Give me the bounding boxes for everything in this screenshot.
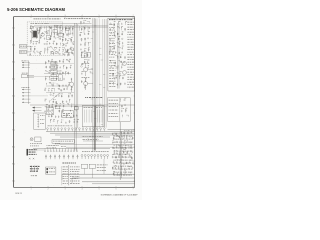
enclosure: protection circuit <box>108 98 131 122</box>
phono input pins <box>22 62 30 68</box>
wire: inner box bus <box>117 23 119 89</box>
relay RL1 <box>35 137 41 142</box>
svg-text:6: 6 <box>116 15 117 17</box>
electrolytic C10 / C11 <box>51 51 53 53</box>
wire: output run 2 <box>50 132 135 134</box>
antenna terminal J1 <box>19 45 26 48</box>
power switch S9 labels <box>29 149 37 154</box>
wire: center bus group C <box>98 19 100 129</box>
sheet border frame <box>14 17 135 188</box>
svg-text:6: 6 <box>116 189 117 191</box>
wire: output run 4 <box>60 136 110 138</box>
speaker terminal strip TB1 <box>47 128 106 132</box>
svg-text:5: 5 <box>99 15 100 17</box>
fuse holder F1 <box>52 140 74 144</box>
AC cord labels <box>30 166 40 172</box>
IF transformer T1 <box>32 30 37 38</box>
output transistor Q7 <box>123 62 127 66</box>
section header: power supply <box>85 96 103 99</box>
svg-text:SCHEMATIC DIAGRAM OF S-206 AMP: SCHEMATIC DIAGRAM OF S-206 AMP <box>101 194 139 197</box>
wire: top bus B+ <box>34 25 108 27</box>
bus taps <box>91 26 105 125</box>
rectifier block D2-D5 <box>46 108 53 115</box>
wire: ground return <box>92 183 135 185</box>
coupling transformer T5 <box>81 52 86 58</box>
wire: rail run 6 <box>66 146 135 148</box>
svg-text:1: 1 <box>12 28 13 30</box>
power transformer T6 <box>82 106 95 127</box>
aux input socket J3 <box>21 75 27 78</box>
wire: output run 3 <box>55 134 135 136</box>
wire: rail run 5 <box>60 144 135 146</box>
ground terminal J2 <box>19 51 26 54</box>
audio driver circuitry <box>80 21 90 58</box>
de-emphasis network <box>63 44 73 56</box>
parts table rule <box>68 165 70 185</box>
output transistor Q8 <box>123 71 127 75</box>
tape input pins <box>22 89 31 103</box>
electrolytic bank C30-C38 <box>81 154 109 159</box>
wire: return run <box>108 128 135 130</box>
power amp circuitry <box>109 22 126 86</box>
IF transformer T2 <box>46 36 51 39</box>
capacitor C2 <box>39 27 41 33</box>
tuner block circuitry <box>30 27 44 56</box>
wire: bus drops <box>47 26 89 37</box>
IF transformer T3 <box>53 30 57 33</box>
wire: output run 1 <box>46 130 135 132</box>
grid reference ticks <box>14 17 135 188</box>
regulator IC1 <box>62 111 74 118</box>
parts table rows <box>63 167 80 184</box>
svg-text:S26 21: S26 21 <box>15 193 22 195</box>
wire: relay drops <box>61 174 63 180</box>
wire: speaker line R <box>72 177 135 179</box>
power supply board circuitry <box>112 131 134 175</box>
wire: antenna leads <box>27 45 31 47</box>
tone control network <box>51 74 56 76</box>
transformer windings <box>85 110 103 123</box>
svg-text:5-206 SCHEMATIC DIAGRAM: 5-206 SCHEMATIC DIAGRAM <box>7 7 65 12</box>
muting relay RL2 <box>81 164 87 168</box>
rectifier labels under transformer <box>83 136 103 139</box>
IF strip circuitry <box>44 26 75 56</box>
transistor Q1 <box>41 33 44 36</box>
detector diode D1 <box>65 28 69 30</box>
preamp circuitry <box>44 60 72 104</box>
protection circuit components <box>120 99 128 118</box>
wire: center bus group A <box>74 23 76 151</box>
IF transformer T4 <box>59 33 64 36</box>
pushbutton row S2-S8 <box>44 148 77 151</box>
svg-text:1: 1 <box>31 189 32 191</box>
svg-text:7: 7 <box>12 130 13 132</box>
power amp upper label column <box>109 24 115 57</box>
svg-text:2: 2 <box>48 189 49 191</box>
output transformer T7 <box>95 106 104 127</box>
svg-text:3: 3 <box>12 62 13 64</box>
driver bias components <box>81 61 93 89</box>
svg-text:8: 8 <box>12 147 13 149</box>
net labels along top bus <box>34 17 91 20</box>
wire: ground line <box>82 181 135 183</box>
diode pair D6 D7 <box>83 140 103 142</box>
power supply board labels <box>114 133 133 176</box>
svg-text:2: 2 <box>12 45 13 47</box>
coil L1 <box>30 26 33 28</box>
pre-driver transistor Q5 <box>84 82 88 86</box>
svg-text:5: 5 <box>99 189 100 191</box>
svg-text:6: 6 <box>12 113 13 115</box>
connector strip CN1 <box>34 113 46 129</box>
svg-text:9: 9 <box>12 164 13 166</box>
wire: input feed runs <box>29 63 74 65</box>
wire: center bus group B <box>92 18 94 152</box>
svg-text:4: 4 <box>82 189 83 191</box>
svg-text:1: 1 <box>31 15 32 17</box>
svg-text:4: 4 <box>82 15 83 17</box>
power amp label column left <box>109 60 115 87</box>
wire: speaker feed arrows <box>32 107 41 112</box>
svg-text:5: 5 <box>12 96 13 98</box>
wire: top feed <box>44 22 92 24</box>
legend box <box>46 167 56 174</box>
svg-text:4: 4 <box>12 79 13 81</box>
svg-text:2: 2 <box>48 15 49 17</box>
wire: chassis rail <box>33 147 110 149</box>
svg-text:3: 3 <box>65 15 66 17</box>
pre-driver transistor Q4 <box>84 68 88 72</box>
dashed enclosure: tuner block <box>27 22 63 56</box>
protection circuit labels <box>109 100 119 117</box>
AC plug prongs <box>29 158 34 159</box>
parts table header <box>62 162 76 165</box>
svg-text:3: 3 <box>65 189 66 191</box>
power section wiring <box>44 104 78 124</box>
enclosure: power amplifier unit <box>108 18 135 91</box>
muting relay RL3 <box>89 164 95 168</box>
value label column <box>127 22 133 88</box>
driver transistor Q3 <box>70 82 74 86</box>
header label power amplifier <box>109 18 132 21</box>
function switch S1 sections <box>51 62 57 65</box>
filter capacitor C21 <box>74 107 78 110</box>
power switch S9 <box>27 149 29 156</box>
pilot lamp PL1 <box>30 138 33 141</box>
svg-text:7: 7 <box>133 15 134 17</box>
svg-text:7: 7 <box>133 189 134 191</box>
lamp row LP1-LP8 <box>45 155 78 160</box>
value labels tuner <box>31 22 49 25</box>
wire: left feed line <box>28 61 30 105</box>
wire: top bus AVC <box>35 26 107 28</box>
wire: speaker line L <box>62 173 135 175</box>
wire: crossover diagonal <box>51 93 61 101</box>
voltage note <box>31 174 37 177</box>
filter capacitor C20 <box>55 106 59 109</box>
svg-text:10: 10 <box>12 181 14 183</box>
wire: interstage couplings <box>44 73 71 75</box>
